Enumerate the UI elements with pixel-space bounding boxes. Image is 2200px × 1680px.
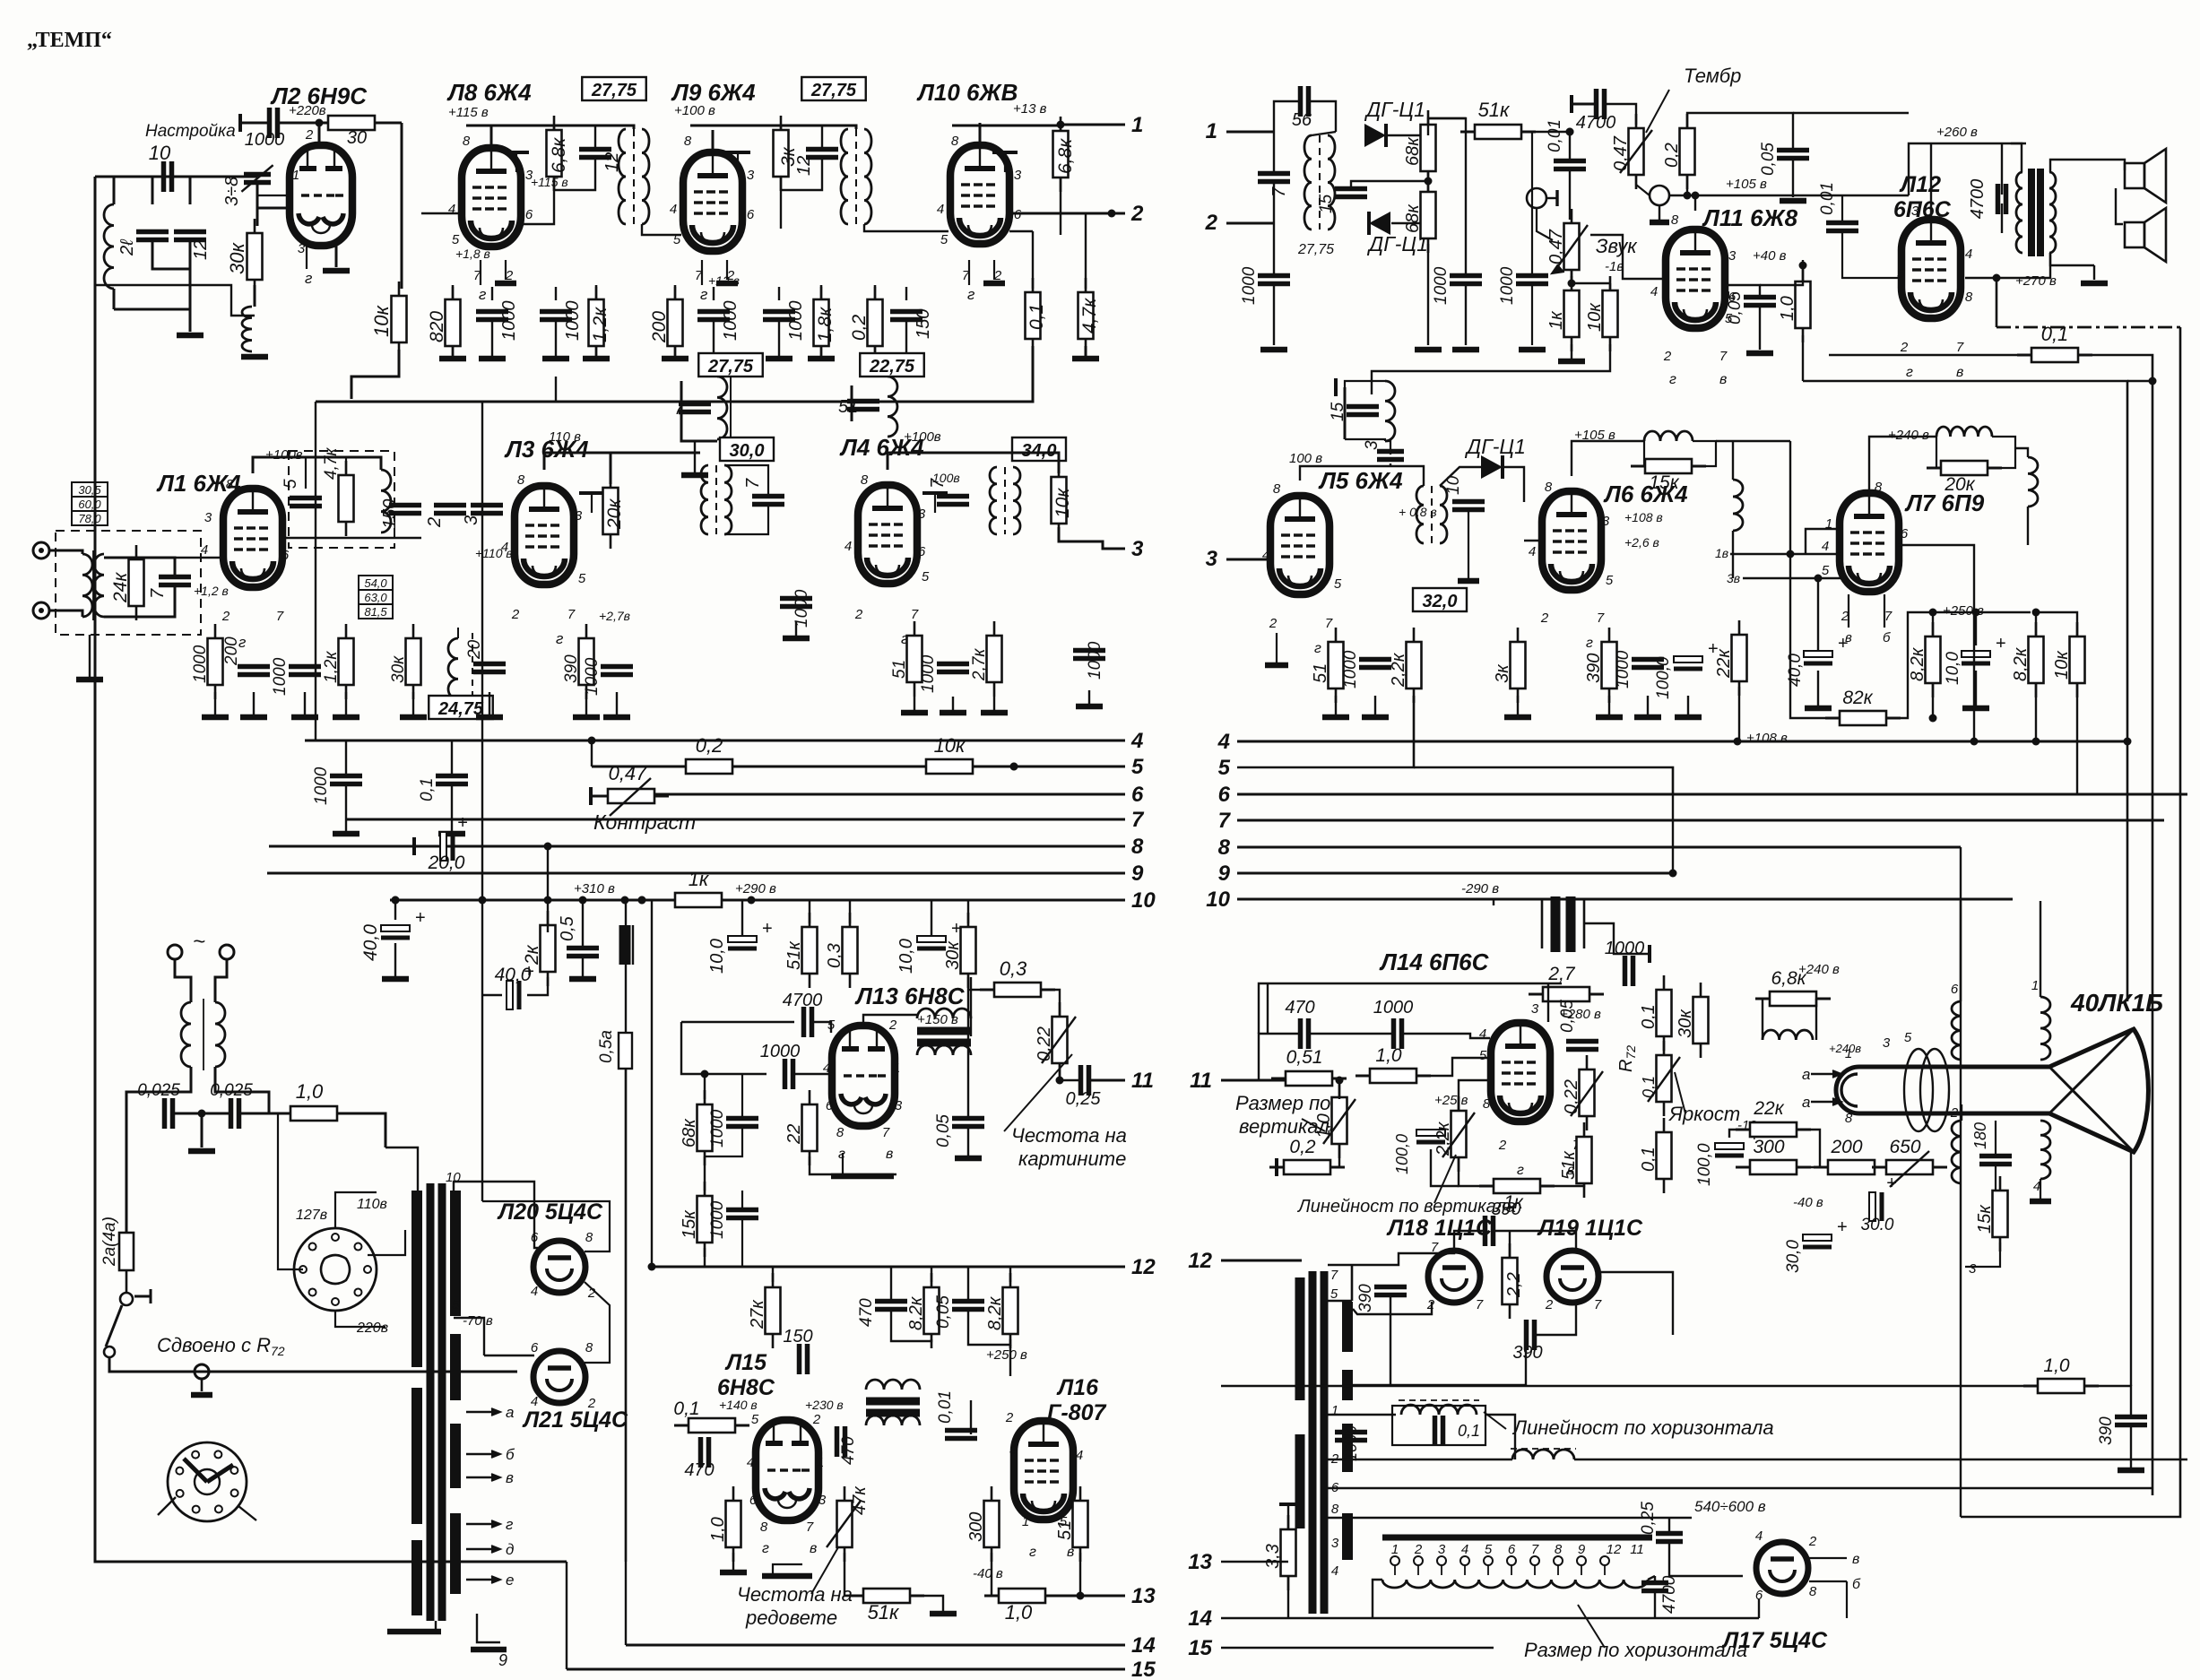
wire 14 right <box>1221 1617 1759 1620</box>
bus 7 right <box>1237 819 2164 822</box>
svg-text:110в: 110в <box>357 1197 387 1212</box>
svg-text:7: 7 <box>148 588 168 599</box>
svg-text:8: 8 <box>517 472 525 488</box>
wire fr 022 dn <box>1060 1063 1079 1080</box>
wire mix out <box>285 537 421 539</box>
svg-text:Контраст: Контраст <box>593 810 696 834</box>
svg-text:82к: 82к <box>1842 688 1873 708</box>
svg-text:4700: 4700 <box>1660 1575 1679 1614</box>
svg-text:г: г <box>700 286 707 303</box>
capacitor 0,01 Л12 <box>1826 221 1858 226</box>
wire rr2 1838 <box>1647 696 1649 717</box>
flyback winding4 <box>1295 1434 1305 1528</box>
svg-text:27,75: 27,75 <box>1297 242 1334 257</box>
svg-text:ДГ-Ц1: ДГ-Ц1 <box>1364 98 1425 121</box>
grid stopper Л10 6ЖВ <box>1004 152 1006 172</box>
hv top to Л20 <box>454 1182 538 1248</box>
resistor 51к v <box>1583 1122 1586 1137</box>
svg-text:0,01: 0,01 <box>1818 182 1837 215</box>
wire fr plate top <box>863 1015 917 1026</box>
svg-text:2: 2 <box>305 127 314 143</box>
svg-text:+: + <box>1838 634 1849 654</box>
wire 40,0 up <box>1817 578 1819 651</box>
ground sec <box>471 1647 507 1653</box>
svg-text:5: 5 <box>751 1412 759 1427</box>
capacitor 1000 af <box>1516 273 1548 279</box>
capacitor 0,05 snd <box>1777 148 1809 153</box>
wire grid1 <box>257 195 290 196</box>
wire tap2 run <box>1328 1459 1512 1460</box>
wire to gnd tuner <box>189 309 192 332</box>
svg-text:12: 12 <box>191 240 211 260</box>
svg-text:4: 4 <box>1217 730 1230 754</box>
svg-text:1,0: 1,0 <box>1375 1045 1402 1066</box>
svg-text:13: 13 <box>1131 1584 1156 1608</box>
svg-text:г: г <box>479 286 486 303</box>
ground 40,0 <box>382 976 409 983</box>
coil L tuner <box>104 204 114 289</box>
svg-text:в: в <box>1852 1552 1859 1567</box>
svg-text:11: 11 <box>1190 1069 1212 1093</box>
label 0,01 Л12 <box>1818 182 1837 215</box>
svg-text:Л5 6Ж4: Л5 6Ж4 <box>1318 467 1403 494</box>
svg-text:0,2: 0,2 <box>1289 1137 1316 1157</box>
svg-text:2,2: 2,2 <box>1504 1272 1524 1298</box>
label 0,1 Л10 <box>1026 304 1047 330</box>
terminal stub 3,3 <box>1279 1502 1297 1506</box>
resistor 15к crt <box>1999 1176 2002 1191</box>
label 0,3 fr <box>825 943 844 968</box>
wire yoke2 wire <box>1961 1104 1962 1121</box>
wire Л9 plate <box>712 130 715 152</box>
node 11 pot <box>1336 1077 1344 1085</box>
label 0,1 bright1 <box>1639 1004 1659 1029</box>
svg-text:~: ~ <box>193 930 205 954</box>
input transformer <box>82 554 92 617</box>
svg-text:22,75: 22,75 <box>869 357 915 377</box>
svg-text:12: 12 <box>1607 1542 1622 1557</box>
svg-text:9: 9 <box>498 1651 507 1669</box>
label 0,2 <box>849 314 870 341</box>
svg-text:390: 390 <box>1584 654 1604 683</box>
resistor 24к <box>135 545 138 559</box>
svg-text:0,05: 0,05 <box>1759 143 1778 176</box>
power tr secondary hv <box>450 1191 461 1316</box>
wire fly-383 <box>1353 1295 1390 1385</box>
svg-text:8: 8 <box>684 134 692 149</box>
ground Л5 cath <box>1265 662 1288 669</box>
node +310 <box>621 896 629 905</box>
svg-text:1,0: 1,0 <box>1005 1601 1033 1624</box>
resistor 0,1 Л10 <box>1032 278 1035 292</box>
svg-text:1к: 1к <box>1546 310 1566 330</box>
wire 1000fr2 <box>741 1074 743 1118</box>
wire sg rail2 <box>1760 281 1803 285</box>
wire 15k dn <box>704 1248 706 1267</box>
svg-text:300: 300 <box>1753 1137 1784 1157</box>
svg-text:Линейност по вертикала: Линейност по вертикала <box>1296 1197 1516 1217</box>
svg-text:1: 1 <box>2031 978 2039 993</box>
label 2,2к v <box>1433 1121 1453 1156</box>
svg-text:+13 в: +13 в <box>1013 101 1047 117</box>
wire 0,5 g <box>582 957 584 977</box>
label 1000 af <box>1498 266 1517 305</box>
resistor 51к det <box>1460 131 1475 134</box>
svg-text:1в: 1в <box>1715 546 1728 560</box>
svg-text:0,3: 0,3 <box>1000 957 1027 980</box>
svg-text:6,8к: 6,8к <box>549 137 569 173</box>
capacitor 7 snd <box>1258 171 1290 177</box>
resistor 1,0 hb <box>984 1595 999 1598</box>
capacitor 0,25 out11 <box>1078 1065 1084 1095</box>
label 3к Л6 <box>1493 663 1512 683</box>
svg-text:8: 8 <box>1555 1542 1563 1557</box>
wire bus9 drop <box>1672 794 1674 873</box>
svg-text:Честота на: Честота на <box>737 1583 853 1606</box>
svg-text:+260 в: +260 в <box>1936 125 1978 140</box>
wire Л3 top <box>544 453 611 484</box>
electrolytic 30.0 crt <box>1869 1192 1875 1221</box>
wire 51k out <box>1521 131 1570 133</box>
ground 0,05 Л11 <box>1746 351 1773 357</box>
wire 1000fr3 <box>741 1191 743 1209</box>
wire lin run <box>1328 1414 1396 1416</box>
svg-text:5: 5 <box>452 232 460 247</box>
wire 4700 stub <box>1572 103 1596 106</box>
svg-text:г: г <box>1517 1163 1524 1178</box>
tube Л14 6П6С <box>1491 1023 1550 1121</box>
tap б <box>466 1453 498 1455</box>
wire cap12 dn <box>554 158 595 190</box>
resistor 15к fr <box>704 1182 706 1196</box>
tank coil 15 r2 <box>1344 387 1347 439</box>
node bus5 10k <box>1010 763 1018 771</box>
svg-text:0,3: 0,3 <box>825 943 844 968</box>
wire 8,2b dn <box>2035 683 2037 741</box>
wire 8,2a dn <box>1932 683 1934 718</box>
wire Л15 cath g <box>773 1564 802 1574</box>
label 1000 a <box>499 301 519 342</box>
svg-text:1000: 1000 <box>786 301 806 342</box>
tap а <box>466 1411 498 1413</box>
svg-text:2,2к: 2,2к <box>1433 1121 1453 1156</box>
capacitor 1000 at Л2 <box>267 108 273 138</box>
pot 650 <box>1872 1166 1886 1169</box>
wire 1,0 dn <box>732 1553 734 1571</box>
wire -290 drop <box>1493 899 1494 905</box>
wire g505 <box>452 346 454 359</box>
label R72 <box>1616 1045 1638 1072</box>
resistor 200 crt2 <box>1814 1166 1828 1169</box>
svg-text:0,5а: 0,5а <box>597 1030 616 1063</box>
svg-text:1000: 1000 <box>1341 650 1360 688</box>
electrolytic 10,0 b7 <box>1962 651 1990 657</box>
boxed 30.0 <box>720 437 774 461</box>
label 390 Л3 <box>562 654 581 683</box>
svg-text:1000: 1000 <box>312 766 331 805</box>
label 1000 fr3 <box>708 1200 727 1239</box>
svg-text:7: 7 <box>1325 616 1333 631</box>
wire 470-8,2 join <box>891 1310 931 1341</box>
resistor 51 h <box>1079 1486 1082 1501</box>
wire det bot <box>1391 222 1428 224</box>
svg-text:8: 8 <box>861 472 869 488</box>
svg-text:г: г <box>556 630 563 647</box>
svg-text:3: 3 <box>747 168 755 183</box>
svg-text:40ЛК1Б: 40ЛК1Б <box>2070 989 2163 1017</box>
resistor 300 <box>991 1486 993 1501</box>
label 1,2к Л1 <box>322 651 341 683</box>
label 0,47 звук <box>1546 229 1566 264</box>
svg-text:4: 4 <box>1822 539 1829 554</box>
wire r2 g340 <box>304 692 306 717</box>
sec bot wire <box>477 1614 500 1642</box>
adjust arrow frame <box>1004 1054 1072 1131</box>
svg-text:г: г <box>1314 641 1321 656</box>
svg-text:8: 8 <box>1331 1502 1339 1517</box>
wire size right end <box>1648 1576 1655 1580</box>
label 4,7к <box>1079 298 1100 333</box>
label 15к fr <box>680 1209 699 1239</box>
svg-text:ДГ-Ц1: ДГ-Ц1 <box>1366 232 1428 255</box>
capacitor 470 v <box>1298 1018 1304 1049</box>
line filter transformer <box>181 1002 191 1067</box>
svg-text:51к: 51к <box>784 940 804 970</box>
mains wire L <box>175 959 191 1002</box>
tube Л13 6Н8С <box>832 1026 895 1126</box>
svg-text:10к: 10к <box>370 305 393 337</box>
wire Л7 g3 <box>1743 577 1841 579</box>
wire g1011 <box>905 320 907 359</box>
bus 12 left <box>652 1266 1125 1269</box>
svg-text:г: г <box>1586 636 1593 651</box>
resistor 4,7к <box>1085 278 1087 292</box>
ground fr cath <box>831 1173 894 1180</box>
wire 180-15k <box>1995 1165 1996 1191</box>
svg-text:0,1: 0,1 <box>1639 1147 1659 1172</box>
wire 2к dn <box>527 977 548 995</box>
core gnd wire <box>435 1621 437 1632</box>
svg-text:0,2: 0,2 <box>1662 143 1682 168</box>
capacitor 1000 snd <box>1258 273 1290 279</box>
svg-text:1: 1 <box>1131 113 1143 137</box>
label 3 r2 <box>1363 440 1381 450</box>
wire 6,8k taps <box>553 126 555 130</box>
speaker 1 <box>2125 163 2144 188</box>
svg-text:100 в: 100 в <box>1289 451 1322 466</box>
wire pot dn <box>1636 175 1650 195</box>
ground 51к h <box>930 1611 957 1617</box>
svg-text:Л9 6Ж4: Л9 6Ж4 <box>671 79 756 106</box>
svg-text:32,0: 32,0 <box>1423 592 1458 611</box>
label 10к b7 <box>2052 650 2072 680</box>
node bus4 lineC <box>2124 738 2132 746</box>
flyback top box <box>1351 1265 1354 1301</box>
wire 0,05 dn <box>1792 159 1794 197</box>
node 68k <box>701 1070 709 1078</box>
svg-text:1000: 1000 <box>1342 1425 1360 1461</box>
wire r2b g1215 <box>1088 690 1090 706</box>
wire h tops5 <box>1009 1267 1011 1282</box>
Л21 wire <box>585 1282 610 1363</box>
svg-text:+: + <box>1996 634 2006 654</box>
svg-text:7: 7 <box>1956 340 1964 355</box>
wire 3k tap <box>780 126 782 130</box>
capacitor 0,05 h <box>952 1299 984 1304</box>
svg-text:2: 2 <box>1414 1542 1423 1557</box>
coil osc <box>381 470 391 533</box>
wire cap3 to rail <box>1390 463 1391 466</box>
wire osc top <box>253 457 381 473</box>
ground Л2 <box>323 268 350 274</box>
mains left drop <box>126 1113 128 1233</box>
svg-text:540÷600 в: 540÷600 в <box>1694 1498 1766 1515</box>
tube Л5 6Ж4 <box>1270 496 1330 594</box>
node fr 11 <box>1056 1077 1064 1085</box>
wire 10k up7 <box>2036 612 2077 636</box>
peaking coil 15к <box>1644 431 1693 441</box>
svg-text:+12 в: +12 в <box>708 273 740 288</box>
capacitor 0,5 <box>567 946 599 951</box>
svg-text:24к: 24к <box>110 572 131 603</box>
resistor 1к v <box>1479 1185 1494 1188</box>
svg-text:51к: 51к <box>1478 99 1511 121</box>
wire 56 loop <box>1274 101 1300 132</box>
svg-text:8: 8 <box>1671 212 1679 228</box>
tap в <box>466 1476 498 1478</box>
wire det top <box>1388 134 1428 136</box>
svg-text:+: + <box>762 919 773 939</box>
svg-text:7: 7 <box>882 1125 890 1140</box>
mains plug <box>168 945 182 959</box>
node bus4 r 82 <box>2032 738 2040 746</box>
capacitor 1000 v14 <box>1623 956 1628 986</box>
node звук <box>1568 280 1576 288</box>
vert blocking transformer <box>917 1027 971 1035</box>
label 0,05 fr <box>934 1114 953 1147</box>
adjust arrow razm v <box>1302 1119 1325 1131</box>
boxed 24,75 <box>429 696 493 719</box>
wire 0,2v stub <box>1277 1166 1284 1169</box>
svg-text:Л11 6Ж8: Л11 6Ж8 <box>1702 204 1798 231</box>
node 13 j <box>1077 1592 1085 1600</box>
wire Л11 grid <box>1590 235 1664 279</box>
resistor 10к b7 <box>2076 622 2079 636</box>
wire 1,0hb to 13 <box>1045 1595 1125 1598</box>
wire 4700 to pot <box>1605 104 1636 125</box>
svg-text:6: 6 <box>1508 1542 1516 1557</box>
resistor 0,2 v <box>1269 1166 1284 1169</box>
deflection coil top1 <box>1952 1001 1962 1060</box>
wire cap net <box>152 177 154 204</box>
svg-text:+: + <box>415 908 426 928</box>
wire g753 <box>674 346 676 359</box>
svg-text:+290 в: +290 в <box>735 881 776 896</box>
ground coil <box>241 354 268 360</box>
ground tank7 <box>681 472 708 479</box>
svg-text:5: 5 <box>922 569 930 585</box>
svg-text:30: 30 <box>347 128 367 148</box>
svg-text:1: 1 <box>1022 1514 1029 1529</box>
resistor 30 plate <box>314 122 328 125</box>
svg-text:б: б <box>1852 1577 1861 1592</box>
svg-text:5: 5 <box>1485 1542 1493 1557</box>
svg-text:5: 5 <box>940 232 948 247</box>
wire r2b g1063 <box>952 697 954 713</box>
label 2к <box>522 944 542 966</box>
svg-text:27,75: 27,75 <box>810 81 857 100</box>
svg-text:0,2: 0,2 <box>696 734 723 757</box>
svg-text:в: в <box>810 1541 817 1556</box>
wire g916 <box>820 346 822 359</box>
wire Л7 plate <box>1869 437 1936 494</box>
label 2 row2 <box>425 517 445 528</box>
dashed osc box <box>289 451 394 548</box>
resistor 8,2к b7 <box>2035 622 2038 636</box>
wire 47k dn <box>844 1553 858 1596</box>
ground 10,0 b7 <box>1962 706 1989 712</box>
capacitor 1000 c <box>697 309 730 315</box>
voltage selector <box>294 1228 377 1311</box>
wire diode feed <box>1440 467 1481 486</box>
svg-text:2: 2 <box>1808 1534 1817 1549</box>
label 390 hv2 <box>1356 1284 1375 1312</box>
tube Л19 1Ц1С <box>1546 1251 1598 1303</box>
svg-text:0,5: 0,5 <box>558 915 577 941</box>
capacitor 1000 fly <box>1335 1430 1367 1435</box>
ground g916 <box>808 356 835 362</box>
ground 390 crt <box>2118 1468 2144 1474</box>
label 68к fr <box>680 1118 699 1147</box>
wire t2 sec to Л10 grid <box>864 224 948 231</box>
svg-text:390: 390 <box>2097 1416 2116 1445</box>
wire 12 right <box>1221 1260 1302 1262</box>
wire heater Л8 6Ж4 <box>505 260 507 280</box>
label 10к звук <box>1585 302 1605 332</box>
wire sg up <box>1802 260 1804 281</box>
label 0,5а <box>597 1030 616 1063</box>
label 15 snd <box>1317 194 1336 213</box>
resistor 1к звук <box>1571 276 1573 290</box>
wire video vert <box>1789 441 1791 578</box>
capacitor 1000 fr <box>783 1059 788 1089</box>
wire Л7 grid <box>1732 531 1734 578</box>
tube Л9 pentode <box>683 152 742 251</box>
svg-text:3: 3 <box>1009 1442 1018 1458</box>
label 8,2к h2 <box>985 1295 1005 1330</box>
wire T4 out3 <box>1059 527 1125 549</box>
svg-text:г: г <box>1906 365 1913 380</box>
svg-text:в: в <box>506 1469 514 1486</box>
svg-text:8: 8 <box>1809 1584 1817 1599</box>
video out coil <box>2028 457 2038 507</box>
svg-text:3,3: 3,3 <box>1263 1544 1283 1569</box>
wire 11 right <box>1221 1079 1286 1082</box>
label 3 row2 <box>462 515 481 525</box>
capacitor 0,025 a <box>162 1098 168 1129</box>
svg-text:+100в: +100в <box>904 429 941 445</box>
resistor 390 Л6 <box>1608 628 1611 642</box>
wire strip bottom loop <box>555 377 557 402</box>
svg-text:2: 2 <box>425 517 445 528</box>
label 30к mix <box>389 655 408 683</box>
svg-text:470: 470 <box>1285 998 1314 1018</box>
svg-text:1000: 1000 <box>1240 266 1259 305</box>
svg-text:51к: 51к <box>868 1601 900 1624</box>
wire Л17 out2 <box>1809 1580 1847 1582</box>
label 0,47 тембр <box>1611 135 1631 171</box>
svg-text:10: 10 <box>1206 888 1230 912</box>
